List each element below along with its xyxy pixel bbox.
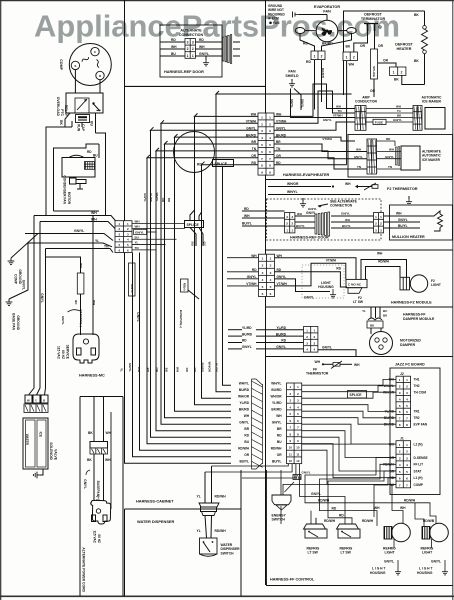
svg-text:RD: RD	[251, 161, 256, 165]
svg-text:FF LIT: FF LIT	[414, 463, 424, 467]
svg-text:6: 6	[269, 150, 271, 154]
svg-text:RD/WH: RD/WH	[404, 499, 416, 503]
svg-text:5: 5	[262, 285, 264, 289]
connector J2	[396, 376, 411, 427]
svg-text:J1: J1	[400, 436, 404, 440]
ice maker connector	[413, 106, 422, 131]
label J2	[400, 372, 404, 376]
svg-text:VALVE: VALVE	[53, 449, 57, 461]
svg-text:LT SW: LT SW	[308, 551, 319, 555]
wire WH down	[29, 216, 35, 396]
label AMP CONDUCTOR	[355, 95, 378, 103]
svg-text:ICE: ICE	[39, 432, 43, 437]
wire down pair	[315, 60, 325, 110]
svg-text:J2: J2	[400, 372, 404, 376]
splice vertical	[371, 49, 378, 79]
svg-text:5: 5	[270, 285, 272, 289]
svg-text:HARNESS-FF: HARNESS-FF	[403, 313, 426, 317]
svg-text:BU/RD: BU/RD	[200, 363, 204, 373]
wire WH to cord	[92, 216, 96, 336]
svg-text:WH: WH	[92, 300, 96, 305]
svg-text:11: 11	[289, 452, 292, 456]
svg-text:RD/WH: RD/WH	[378, 260, 389, 264]
svg-text:BU: BU	[93, 153, 98, 157]
wire BU	[90, 113, 96, 133]
svg-text:1: 1	[314, 55, 316, 59]
wire bundle middle column	[125, 86, 232, 463]
wire labels 2	[143, 193, 171, 203]
mullion heater box	[390, 205, 453, 240]
svg-text:RD/WB: RD/WB	[423, 519, 435, 523]
wire lamps	[394, 539, 445, 566]
wire YL	[197, 472, 206, 503]
wire RD/WB	[415, 503, 435, 526]
svg-text:BK: BK	[346, 45, 351, 49]
svg-text:TN: TN	[338, 109, 342, 113]
wire row4	[175, 134, 259, 137]
compressor winding	[81, 56, 99, 68]
svg-text:WH: WH	[389, 148, 394, 152]
svg-text:WH: WH	[244, 414, 250, 418]
svg-text:BK: BK	[414, 13, 419, 17]
svg-text:CONNECTION: CONNECTION	[330, 204, 353, 208]
wire WH 2	[392, 484, 406, 523]
wire YL	[28, 239, 112, 247]
svg-text:10: 10	[296, 446, 300, 450]
wire row3	[151, 127, 259, 130]
svg-text:GROUND: GROUND	[16, 315, 20, 330]
wire row8	[202, 162, 259, 165]
labels harness-ff rows	[238, 381, 282, 463]
wire	[99, 80, 101, 93]
svg-text:BR: BR	[244, 427, 249, 431]
watermark AppliancePartsPros.com	[34, 9, 400, 44]
svg-text:RD/WH: RD/WH	[362, 519, 374, 523]
wire YL down	[37, 222, 41, 396]
defrost box	[344, 11, 425, 95]
svg-text:BU/YL: BU/YL	[242, 222, 252, 226]
svg-text:RD: RD	[171, 38, 176, 42]
wire GN/YL shield	[290, 89, 355, 118]
label BK WH	[87, 458, 111, 462]
wires block down	[205, 464, 311, 480]
wire RD	[320, 490, 378, 526]
loom band	[252, 379, 263, 469]
svg-text:SHIELD: SHIELD	[285, 74, 299, 78]
mullion heater circuit	[384, 211, 443, 231]
wire j1 feeds	[305, 458, 396, 511]
wire row2	[161, 120, 258, 123]
svg-text:115 VAC: 115 VAC	[56, 346, 60, 360]
svg-text:BK: BK	[414, 59, 419, 63]
svg-text:BU/YL: BU/YL	[296, 224, 305, 228]
svg-text:2: 2	[401, 70, 403, 74]
svg-text:RD: RD	[242, 339, 247, 343]
wire OR	[360, 31, 384, 49]
wire	[125, 85, 266, 87]
svg-text:4: 4	[261, 136, 263, 140]
svg-text:RD: RD	[336, 266, 341, 270]
label HARNESS-FF DAMPER MODULE	[403, 313, 435, 322]
svg-text:TR1: TR1	[414, 410, 420, 414]
solenoid connector	[24, 404, 48, 413]
svg-text:GN/YL: GN/YL	[136, 312, 140, 322]
svg-text:12: 12	[296, 459, 300, 463]
svg-text:ICE MAKER: ICE MAKER	[422, 100, 442, 104]
svg-text:OR: OR	[360, 44, 366, 48]
svg-text:WH/OR: WH/OR	[238, 394, 250, 398]
energy switch	[272, 495, 292, 522]
svg-text:3: 3	[187, 41, 189, 45]
ff thermistor	[306, 360, 360, 376]
svg-text:L I G H T: L I G H T	[372, 567, 386, 571]
wire NO to lamp	[361, 260, 407, 280]
svg-text:TR2: TR2	[414, 416, 420, 420]
connector J1	[396, 441, 411, 488]
svg-text:TN: TN	[135, 246, 139, 250]
svg-text:YL: YL	[119, 368, 123, 372]
PTC inner element	[75, 98, 89, 113]
wire stubs	[233, 42, 240, 56]
svg-text:GN/YL: GN/YL	[304, 296, 314, 300]
wire RD/WH 2	[211, 516, 226, 539]
svg-text:RELAY: RELAY	[64, 105, 68, 117]
svg-text:BASEPAN(+): BASEPAN(+)	[179, 310, 183, 328]
svg-text:YL: YL	[135, 241, 139, 245]
svg-text:GN/YL: GN/YL	[354, 155, 363, 159]
svg-text:GN/YL: GN/YL	[239, 420, 249, 424]
svg-text:DAMPER: DAMPER	[400, 343, 416, 347]
wire WH fz	[275, 252, 384, 280]
svg-text:GN/YL: GN/YL	[83, 479, 87, 489]
svg-text:RD: RD	[277, 433, 282, 437]
base pan ground	[6, 243, 28, 331]
label GROUND WIRE NOT REQUIRED	[268, 4, 286, 25]
harness-ref door dashed box	[267, 199, 382, 240]
svg-text:8: 8	[261, 164, 263, 168]
wire WH 2	[40, 217, 115, 228]
wire splice2 top	[190, 210, 202, 221]
label VT/WH amp	[333, 114, 343, 118]
splice energy	[293, 475, 301, 480]
compressor terminal R	[96, 71, 104, 79]
svg-text:GN/YL: GN/YL	[74, 229, 84, 233]
svg-text:GN/YL: GN/YL	[61, 316, 65, 325]
svg-text:TN: TN	[252, 147, 257, 151]
svg-text:WH: WH	[345, 218, 350, 222]
svg-text:BU: BU	[164, 368, 168, 372]
svg-text:TN: TN	[388, 165, 392, 169]
svg-text:2: 2	[261, 122, 263, 126]
enclosure outline	[46, 121, 106, 216]
connector harness-evap/heater	[258, 113, 274, 175]
wire fanout r8	[274, 164, 347, 166]
svg-text:DAMPER MODULE: DAMPER MODULE	[403, 317, 435, 321]
harness-ref door top box	[160, 25, 222, 77]
wire GN/YL damper	[318, 345, 356, 356]
svg-text:VT/WH: VT/WH	[322, 137, 332, 141]
svg-text:WH: WH	[135, 225, 140, 229]
svg-text:1: 1	[269, 115, 271, 119]
svg-text:BK/RD: BK/RD	[271, 407, 282, 411]
svg-text:COMP: COMP	[13, 274, 17, 285]
wire RD	[242, 207, 285, 211]
label CONDENSER FAN MOTOR	[62, 175, 71, 204]
connector harness-cabinet	[115, 221, 132, 253]
svg-text:MOTORIZED: MOTORIZED	[400, 339, 421, 343]
compressor terminal C	[91, 47, 99, 55]
svg-text:GN/YL: GN/YL	[308, 207, 317, 211]
wire TN	[46, 244, 114, 252]
svg-text:BASEPAN(+): BASEPAN(+)	[79, 309, 83, 327]
svg-text:2: 2	[262, 264, 264, 268]
wire row7	[147, 155, 258, 158]
svg-text:RD: RD	[199, 38, 204, 42]
wire fanout r4	[274, 137, 355, 141]
alt wires	[377, 137, 401, 169]
svg-text:WH: WH	[349, 63, 355, 67]
svg-text:HARNESS-REF DOOR: HARNESS-REF DOOR	[290, 236, 329, 240]
label F2 THERMISTOR	[387, 187, 418, 191]
svg-text:WH: WH	[356, 148, 361, 152]
svg-text:BU: BU	[191, 242, 195, 247]
fuse	[373, 119, 386, 124]
svg-text:GN/YL: GN/YL	[431, 560, 441, 564]
wire BK	[88, 397, 94, 442]
label OVERLOAD PTC RELAY	[56, 97, 68, 117]
connector damper	[304, 327, 318, 353]
svg-text:YL/BU: YL/BU	[149, 193, 153, 202]
svg-text:8: 8	[269, 164, 271, 168]
wire WH	[374, 506, 380, 510]
label HARNESS-REF DOOR	[164, 70, 204, 74]
svg-text:DEFROST: DEFROST	[364, 13, 382, 17]
label RUN CAP	[77, 124, 86, 132]
label HARNESS-REF DOOR 2	[290, 236, 329, 240]
ground GN/YL	[83, 470, 90, 489]
svg-text:115 VAC: 115 VAC	[93, 530, 97, 543]
wire RD fz	[275, 266, 348, 287]
svg-text:EVP FAN: EVP FAN	[414, 423, 428, 427]
svg-text:BU/YL: BU/YL	[398, 224, 408, 228]
svg-text:WH: WH	[377, 252, 383, 256]
svg-text:AppliancePartsPros.com: AppliancePartsPros.com	[34, 9, 400, 44]
svg-text:GN/YL: GN/YL	[341, 212, 350, 216]
svg-text:IF ECM: IF ECM	[268, 17, 279, 21]
svg-text:3: 3	[269, 129, 271, 133]
wire GN/YL right	[196, 52, 223, 56]
svg-text:HOUSING: HOUSING	[417, 571, 433, 575]
svg-text:OR: OR	[277, 453, 282, 457]
svg-text:WH: WH	[135, 219, 140, 223]
svg-text:ALTERNATE: ALTERNATE	[422, 149, 441, 153]
label BASEPAN	[96, 481, 100, 500]
svg-text:SPLICE: SPLICE	[372, 66, 376, 77]
svg-text:SWITCH: SWITCH	[272, 518, 286, 522]
svg-text:W: W	[27, 399, 30, 403]
svg-text:GN/YL: GN/YL	[246, 126, 256, 130]
label HARNESS-FF CONTROL	[270, 578, 315, 582]
svg-text:3: 3	[192, 41, 194, 45]
wire VT/WH fz	[275, 259, 346, 286]
svg-text:BK/RD: BK/RD	[246, 133, 257, 137]
svg-text:1: 1	[346, 56, 348, 60]
solenoid ground	[33, 469, 43, 478]
connector harness-ff	[287, 383, 302, 464]
svg-text:RD: RD	[332, 506, 337, 510]
wire RD right	[196, 38, 223, 42]
wire fanout r1	[274, 84, 355, 116]
svg-text:LT SW: LT SW	[353, 300, 364, 304]
wire OR right	[378, 59, 396, 68]
svg-text:6: 6	[262, 292, 264, 296]
svg-text:HEATER: HEATER	[397, 47, 412, 51]
wire fanout r5	[274, 144, 367, 152]
svg-text:BU/YL: BU/YL	[239, 459, 249, 463]
svg-text:WH: WH	[354, 363, 360, 367]
connector fz	[259, 254, 275, 296]
wire row5	[165, 141, 259, 144]
svg-text:SOLENOID: SOLENOID	[49, 442, 53, 460]
main power cord BK wire	[46, 257, 84, 335]
svg-text:RD/WH: RD/WH	[215, 495, 227, 499]
label JAZZ FC BOARD	[395, 363, 425, 367]
label WATER DISPENSER	[137, 519, 175, 524]
svg-text:TN: TN	[357, 165, 361, 169]
svg-text:WH: WH	[91, 211, 97, 215]
svg-text:SPLICE: SPLICE	[350, 393, 363, 397]
svg-text:WH: WH	[374, 506, 380, 510]
label RD BU	[87, 150, 98, 158]
wire BK	[59, 113, 70, 127]
capacitor symbol	[293, 12, 300, 18]
wire WH/YL	[268, 190, 360, 195]
svg-text:WH: WH	[400, 506, 406, 510]
wire RD/WH	[212, 466, 227, 503]
svg-text:2: 2	[270, 264, 272, 268]
wire	[347, 61, 355, 165]
svg-text:PTC: PTC	[60, 109, 64, 116]
svg-text:WH: WH	[91, 217, 97, 221]
svg-text:L1 (H): L1 (H)	[414, 476, 423, 480]
svg-text:RD: RD	[167, 198, 171, 202]
label EVAPORATOR FAN	[314, 5, 340, 14]
label ALTERNATE POWER CORD	[81, 547, 85, 592]
svg-text:BK/RD: BK/RD	[322, 41, 333, 45]
section border	[266, 179, 453, 181]
svg-text:SWITCH: SWITCH	[221, 551, 235, 555]
motorized damper	[370, 328, 393, 355]
solenoid valve body	[23, 418, 48, 469]
F2 light switch	[346, 279, 367, 303]
svg-text:BU: BU	[277, 440, 282, 444]
svg-text:SERVICE: SERVICE	[65, 345, 69, 360]
svg-text:LIGHT: LIGHT	[431, 283, 441, 287]
svg-text:FAN: FAN	[288, 70, 296, 74]
svg-text:BK: BK	[87, 458, 92, 462]
labels J2 right	[414, 378, 428, 427]
svg-text:1: 1	[261, 115, 263, 119]
wire fanout r7	[274, 158, 367, 169]
svg-text:GN/YL: GN/YL	[306, 211, 316, 215]
svg-text:HARNESS-FZ MODULE: HARNESS-FZ MODULE	[391, 301, 432, 305]
svg-text:2: 2	[321, 55, 323, 59]
svg-text:RD: RD	[339, 514, 344, 518]
svg-text:BK: BK	[59, 120, 63, 125]
label 115 VAC 60 HZ SERVICE	[56, 345, 69, 360]
overload PTC relay box	[66, 93, 103, 113]
wire heater	[402, 75, 425, 84]
svg-text:T4: T4	[397, 109, 401, 113]
svg-text:WH/YL: WH/YL	[287, 190, 298, 194]
svg-text:WH: WH	[396, 212, 402, 216]
svg-text:HARNESS-REF DOOR: HARNESS-REF DOOR	[164, 70, 204, 74]
relay switch	[92, 102, 100, 111]
connector ref door 2	[285, 213, 295, 233]
label J1	[400, 436, 404, 440]
svg-text:COMP: COMP	[414, 483, 424, 487]
svg-text:BK/RD: BK/RD	[321, 68, 325, 79]
main power cord GN/YL	[61, 310, 80, 325]
light housing fz	[302, 265, 344, 300]
amp wires right	[366, 105, 413, 123]
svg-text:WH: WH	[276, 414, 282, 418]
svg-text:BU: BU	[90, 121, 94, 126]
svg-text:GN/YL: GN/YL	[393, 118, 402, 122]
svg-text:BASE PAN: BASE PAN	[11, 313, 15, 330]
wire WH	[242, 214, 285, 218]
label BK	[394, 78, 399, 82]
svg-text:4: 4	[270, 278, 272, 282]
svg-text:GN/YL: GN/YL	[128, 363, 132, 372]
svg-text:GROUND: GROUND	[18, 269, 22, 284]
svg-text:10: 10	[289, 446, 293, 450]
svg-text:BU/RD: BU/RD	[242, 332, 253, 336]
svg-text:WH: WH	[171, 45, 177, 49]
svg-text:CONNECTION: CONNECTION	[179, 33, 204, 37]
svg-text:YL/BK: YL/BK	[214, 363, 218, 373]
svg-text:RD: RD	[244, 207, 249, 211]
svg-text:OR: OR	[383, 59, 389, 63]
svg-text:BU/RD: BU/RD	[271, 388, 282, 392]
115VAC plug	[73, 334, 99, 363]
svg-text:WH/YL: WH/YL	[239, 381, 249, 385]
wire	[80, 396, 123, 398]
wire	[125, 508, 242, 510]
svg-text:WH: WH	[297, 212, 302, 216]
light housing 1	[370, 560, 401, 576]
label HARNESS-EVAP/HEATER	[283, 173, 330, 177]
wire	[81, 123, 83, 128]
svg-text:TH2: TH2	[414, 384, 420, 388]
svg-text:GN/YL: GN/YL	[40, 293, 44, 303]
inner chamber	[54, 144, 100, 211]
wire fanout r2	[274, 91, 355, 123]
svg-text:THERMISTOR: THERMISTOR	[306, 372, 329, 376]
svg-text:BASEPAN(+): BASEPAN(+)	[96, 481, 100, 500]
wire	[240, 470, 242, 596]
splice ff	[348, 391, 367, 399]
svg-text:WH: WH	[175, 367, 179, 372]
svg-text:TH1: TH1	[414, 378, 420, 382]
svg-text:RD(+): RD(+)	[183, 283, 187, 291]
svg-text:LIGHT: LIGHT	[422, 551, 433, 555]
svg-text:GN/YL: GN/YL	[302, 471, 311, 475]
fan lead right	[338, 28, 357, 34]
wire BU	[160, 52, 185, 56]
wire GN/YL	[300, 480, 345, 525]
svg-text:VT/WH: VT/WH	[326, 259, 337, 263]
